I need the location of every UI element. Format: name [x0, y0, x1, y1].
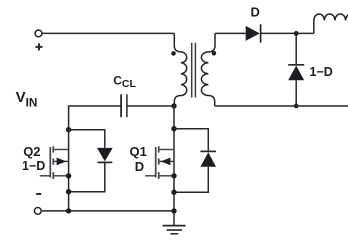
- wire Q2 drain-source bus: [68, 130, 70, 211]
- wire capacitor left to Q2 drain: [69, 106, 121, 130]
- node bottom rail / Q2 bus: [66, 208, 71, 213]
- wire top rail from + terminal to transformer primary: [42, 32, 175, 34]
- mosfet Q1 body lead with arrow (points left): [159, 160, 174, 162]
- mosfet Q2 channel segments: [52, 146, 54, 179]
- mosfet Q1 drain lead: [159, 149, 174, 151]
- primary phase dot: [171, 51, 176, 56]
- label +: [36, 43, 43, 50]
- diode Q1 body (points up): [200, 150, 216, 152]
- wire bottom rail: [41, 210, 174, 212]
- node cap / Q2 drain junction: [66, 127, 71, 132]
- terminal - (negative input): [34, 208, 41, 215]
- mosfet Q1 source lead: [159, 175, 174, 177]
- diode D: [246, 26, 260, 41]
- node Q2 source: [66, 173, 71, 178]
- node Q1 source: [171, 173, 176, 178]
- mosfet Q2 source lead: [53, 175, 68, 177]
- inductor L (output choke): [314, 14, 348, 33]
- transformer core: [192, 43, 196, 98]
- wire capacitor right to primary bottom: [127, 105, 174, 107]
- svg-text:Q2: Q2: [23, 144, 40, 159]
- svg-text:D: D: [135, 159, 144, 174]
- wire Q2 body-diode branch top: [69, 130, 105, 148]
- svg-text:D: D: [251, 4, 260, 19]
- mosfet Q1 gate bar: [155, 147, 157, 178]
- svg-text:1−D: 1−D: [310, 65, 333, 79]
- diode 1-D (freewheel): [295, 33, 297, 64]
- wire secondary bottom rail: [215, 105, 348, 107]
- node Q1 diode return: [171, 190, 176, 195]
- ground: [163, 225, 186, 227]
- wire D cathode to node: [261, 32, 314, 34]
- node bottom rail / center bus: [171, 208, 176, 213]
- label - (negative input): [36, 193, 41, 195]
- diode Q2 body (points down): [97, 148, 113, 161]
- node clamp branch junction: [171, 126, 176, 131]
- mosfet Q1 gate stub: [145, 175, 156, 177]
- transformer T1 primary winding: [174, 33, 186, 106]
- mosfet Q2 gate bar: [49, 147, 51, 178]
- wire secondary top to diode D: [215, 32, 246, 34]
- capacitor CCL plates: [120, 94, 122, 117]
- svg-text:Q1: Q1: [130, 144, 147, 159]
- svg-text:CCL: CCL: [113, 73, 136, 90]
- node primary bottom / cap junction: [171, 103, 176, 108]
- svg-text:1−D: 1−D: [22, 159, 45, 173]
- node secondary return: [294, 104, 299, 109]
- secondary phase dot: [212, 51, 217, 56]
- wire Q1 body-diode branch top: [174, 129, 208, 152]
- terminal + (positive input): [35, 30, 42, 37]
- transformer T1 secondary winding: [201, 33, 215, 106]
- node after diode D: [294, 31, 299, 36]
- node Q2 diode return: [66, 189, 71, 194]
- svg-text:VIN: VIN: [16, 89, 38, 110]
- mosfet Q1 channel segments: [158, 146, 160, 179]
- mosfet Q2 gate stub: [40, 175, 51, 177]
- mosfet Q2 drain lead: [53, 149, 68, 151]
- wire center bus (primary bottom to ground): [173, 106, 175, 226]
- mosfet Q2 body lead with arrow (points right): [53, 160, 68, 162]
